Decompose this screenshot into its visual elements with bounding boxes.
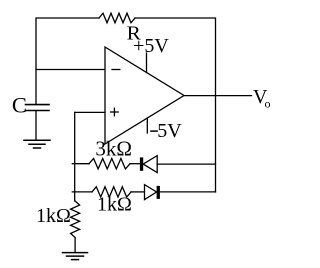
-5V supply stub (146, 118, 148, 133)
wire (36, 18, 99, 105)
wire (74, 112, 76, 201)
node -5V dash (150, 130, 158, 132)
wire (157, 163, 215, 165)
wire (74, 238, 76, 253)
op-amp U1 (105, 47, 184, 144)
wire (35, 111, 37, 140)
wire (184, 95, 252, 97)
op-amp U1 non-inverting input marker (111, 108, 119, 116)
wire (130, 163, 140, 165)
svg-text:5V: 5V (157, 120, 182, 142)
wire (160, 191, 216, 193)
diode D2 (145, 185, 160, 200)
wire (72, 163, 89, 165)
resistor R (99, 13, 135, 23)
svg-text:+5V: +5V (133, 35, 169, 57)
resistor 3k (89, 159, 130, 169)
diode D1 (140, 156, 157, 173)
capacitor C (26, 104, 50, 106)
resistor 1k horizontal (92, 187, 131, 197)
svg-text:3kΩ: 3kΩ (95, 137, 132, 161)
op-amp U1 inverting input marker (112, 69, 120, 71)
ground under C (24, 140, 50, 148)
svg-text:1kΩ: 1kΩ (97, 194, 132, 216)
+5V supply stub (146, 53, 148, 73)
ground bottom (63, 253, 88, 260)
wire (131, 191, 145, 193)
wire (72, 191, 92, 193)
resistor 1k vertical (71, 201, 80, 238)
svg-text:C: C (12, 93, 27, 118)
wire (75, 111, 105, 113)
wire (135, 18, 216, 192)
svg-text:1kΩ: 1kΩ (36, 205, 71, 227)
svg-text:o: o (265, 97, 271, 111)
wire (36, 69, 105, 71)
